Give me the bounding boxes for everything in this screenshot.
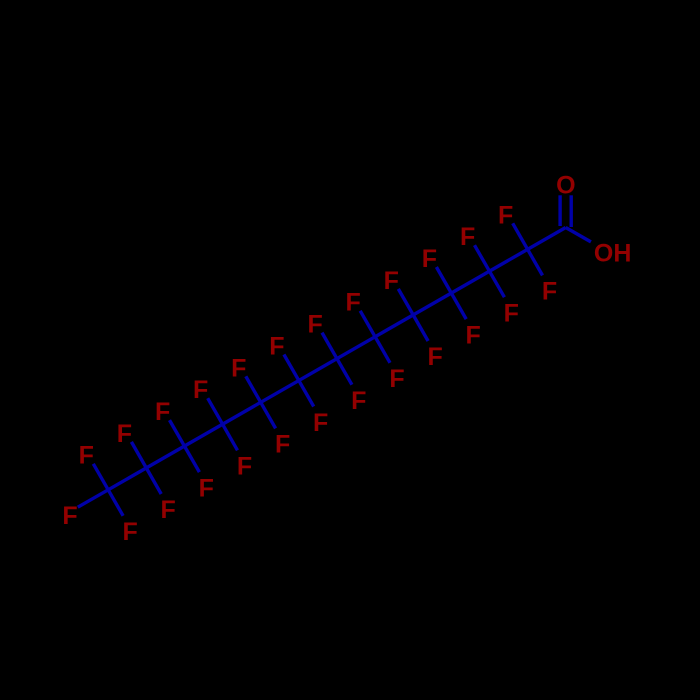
svg-text:F: F xyxy=(237,453,252,481)
bond F-C13-F axis xyxy=(93,464,123,516)
bond F-C11-F axis xyxy=(170,420,200,472)
svg-text:F: F xyxy=(161,496,176,524)
svg-text:F: F xyxy=(384,267,399,295)
bond F-C7-F axis xyxy=(322,333,352,385)
bond F-C12-F axis xyxy=(131,442,161,494)
svg-text:F: F xyxy=(498,201,513,229)
svg-text:F: F xyxy=(427,343,442,371)
svg-text:F: F xyxy=(275,431,290,459)
bond C13-F terminal xyxy=(78,490,108,507)
bond C1=O outer xyxy=(570,195,573,227)
bond C1=O inner xyxy=(558,195,561,226)
bond F-C4-F axis xyxy=(436,267,466,319)
bond F-C8-F axis xyxy=(284,355,314,407)
svg-text:F: F xyxy=(346,289,361,317)
bond F-C9-F axis xyxy=(246,376,276,428)
svg-text:F: F xyxy=(351,387,366,415)
bond F-C2-F axis xyxy=(513,223,543,275)
svg-text:F: F xyxy=(269,332,284,360)
svg-text:F: F xyxy=(466,321,481,349)
svg-text:F: F xyxy=(199,474,214,502)
svg-text:F: F xyxy=(62,502,77,530)
bond F-C6-F axis xyxy=(360,311,390,363)
bond F-C3-F axis xyxy=(475,245,505,297)
svg-text:F: F xyxy=(117,420,132,448)
svg-text:F: F xyxy=(193,376,208,404)
svg-text:F: F xyxy=(389,365,404,393)
wire backbone C1-C13 xyxy=(108,228,566,490)
svg-text:F: F xyxy=(122,518,137,546)
svg-text:F: F xyxy=(231,354,246,382)
svg-text:OH: OH xyxy=(594,239,632,267)
svg-text:F: F xyxy=(79,442,94,470)
svg-text:O: O xyxy=(556,172,575,200)
svg-text:F: F xyxy=(542,278,557,306)
svg-text:F: F xyxy=(155,398,170,426)
svg-text:F: F xyxy=(307,311,322,339)
bond C1-OH xyxy=(566,228,591,242)
svg-text:F: F xyxy=(460,223,475,251)
svg-text:F: F xyxy=(313,409,328,437)
bond F-C10-F axis xyxy=(208,398,238,450)
svg-text:F: F xyxy=(504,300,519,328)
bond F-C5-F axis xyxy=(398,289,428,341)
svg-text:F: F xyxy=(422,245,437,273)
